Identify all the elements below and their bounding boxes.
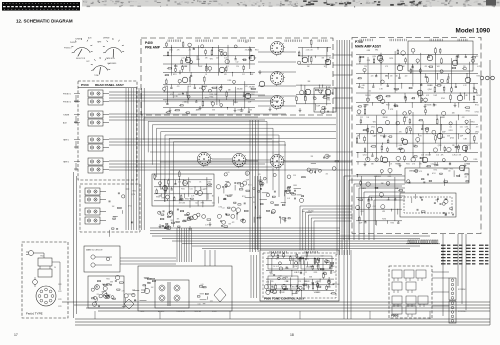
svg-text:4.7K: 4.7K [191, 196, 194, 198]
svg-text:4.7K: 4.7K [276, 266, 279, 268]
svg-text:Q704: Q704 [428, 89, 432, 91]
svg-text:18: 18 [290, 333, 294, 337]
svg-text:33K: 33K [452, 145, 455, 147]
svg-text:470: 470 [245, 42, 248, 44]
svg-text:10K: 10K [395, 75, 398, 77]
svg-text:VR1: VR1 [210, 59, 213, 61]
svg-text:D701: D701 [474, 159, 478, 161]
svg-text:470: 470 [425, 66, 428, 68]
svg-text:R701: R701 [471, 121, 475, 123]
svg-text:R701: R701 [210, 97, 214, 99]
svg-text:Q704: Q704 [372, 56, 376, 58]
svg-text:24: 24 [54, 267, 56, 269]
svg-text:470: 470 [399, 132, 402, 134]
svg-text:1K: 1K [440, 85, 442, 87]
svg-text:H701: H701 [413, 171, 417, 173]
svg-text:2SC458: 2SC458 [476, 95, 482, 97]
svg-text:1K: 1K [429, 85, 431, 87]
svg-text:R701: R701 [181, 189, 185, 191]
svg-text:470: 470 [385, 75, 388, 77]
svg-text:33K: 33K [177, 219, 180, 221]
svg-text:4.7K: 4.7K [205, 224, 208, 226]
svg-text:47K: 47K [205, 58, 208, 60]
svg-text:C12: C12 [304, 272, 307, 274]
svg-text:R701: R701 [156, 196, 160, 198]
svg-text:470: 470 [476, 126, 479, 128]
svg-text:D701: D701 [441, 98, 445, 100]
svg-text:47K: 47K [178, 182, 181, 184]
svg-text:220: 220 [434, 105, 437, 107]
svg-text:P400: P400 [145, 41, 153, 45]
svg-text:H701: H701 [391, 223, 395, 225]
svg-text:220: 220 [271, 281, 274, 283]
svg-text:2SC458: 2SC458 [368, 199, 374, 201]
svg-text:220: 220 [236, 66, 239, 68]
svg-text:0.01: 0.01 [188, 86, 191, 88]
svg-text:47K: 47K [224, 74, 227, 76]
svg-text:PV00: PV00 [81, 83, 89, 87]
svg-text:PHONO 1: PHONO 1 [63, 94, 71, 96]
svg-text:R701: R701 [248, 185, 252, 187]
svg-text:47K: 47K [441, 154, 444, 156]
svg-text:Q704: Q704 [438, 145, 442, 147]
svg-text:2.2K: 2.2K [129, 301, 132, 303]
svg-text:D701: D701 [475, 112, 479, 114]
svg-text:SYSTEM 2: SYSTEM 2 [458, 311, 466, 313]
svg-text:OUT: OUT [86, 61, 90, 63]
svg-text:DEFEAT: DEFEAT [103, 37, 110, 40]
svg-text:VR1: VR1 [384, 136, 387, 138]
svg-text:470: 470 [395, 90, 398, 92]
svg-text:Q704: Q704 [131, 194, 135, 196]
svg-text:VR1: VR1 [361, 88, 364, 90]
svg-text:6.8K: 6.8K [399, 145, 402, 147]
svg-text:0.01: 0.01 [210, 300, 213, 302]
svg-text:220: 220 [285, 277, 288, 279]
svg-text:C12: C12 [242, 74, 245, 76]
svg-text:Q704: Q704 [450, 137, 454, 139]
svg-text:C12: C12 [316, 266, 319, 268]
svg-text:100P: 100P [246, 179, 250, 181]
svg-text:H701: H701 [380, 136, 384, 138]
svg-text:100P: 100P [359, 223, 363, 225]
svg-text:Q704: Q704 [183, 221, 187, 223]
svg-text:VR1: VR1 [241, 109, 244, 111]
svg-text:C12: C12 [175, 66, 178, 68]
svg-text:0.01: 0.01 [294, 272, 297, 274]
svg-text:470: 470 [326, 173, 329, 175]
svg-text:0.01: 0.01 [431, 164, 434, 166]
svg-text:470: 470 [179, 203, 182, 205]
svg-text:2SC458: 2SC458 [425, 154, 431, 156]
svg-text:2SC458: 2SC458 [237, 89, 243, 91]
svg-text:D701: D701 [371, 126, 375, 128]
svg-text:6.8K: 6.8K [374, 176, 377, 178]
svg-text:33K: 33K [228, 223, 231, 225]
svg-text:0.01: 0.01 [378, 56, 381, 58]
svg-text:4.7K: 4.7K [165, 102, 168, 104]
svg-text:4.7K: 4.7K [463, 85, 466, 87]
svg-text:VR1: VR1 [209, 184, 212, 186]
svg-text:VR1: VR1 [171, 220, 174, 222]
svg-text:1K: 1K [324, 66, 326, 68]
svg-text:0.01: 0.01 [361, 211, 364, 213]
svg-text:H701: H701 [133, 191, 137, 193]
svg-text:R701: R701 [388, 176, 392, 178]
svg-text:33K: 33K [447, 136, 450, 138]
svg-text:VR1: VR1 [442, 117, 445, 119]
svg-text:0.01: 0.01 [94, 304, 97, 306]
svg-text:470: 470 [253, 202, 256, 204]
svg-text:220: 220 [371, 75, 374, 77]
svg-text:R701: R701 [173, 74, 177, 76]
svg-text:R701: R701 [389, 58, 393, 60]
svg-text:0.01: 0.01 [460, 126, 463, 128]
svg-text:C12: C12 [455, 154, 458, 156]
svg-text:4.7K: 4.7K [477, 66, 480, 68]
svg-text:C12: C12 [195, 203, 198, 205]
svg-text:D701: D701 [228, 80, 232, 82]
svg-text:D701: D701 [201, 287, 205, 289]
svg-text:D701: D701 [307, 287, 311, 289]
svg-text:10K: 10K [112, 206, 115, 208]
svg-text:H701: H701 [327, 100, 331, 102]
svg-text:6.8K: 6.8K [465, 126, 468, 128]
svg-text:POWER SW: POWER SW [176, 311, 186, 313]
svg-text:R701: R701 [386, 105, 390, 107]
svg-text:6.8K: 6.8K [362, 85, 365, 87]
svg-text:33K: 33K [371, 164, 374, 166]
svg-text:2SC458: 2SC458 [249, 86, 255, 88]
svg-text:100P: 100P [442, 131, 446, 133]
svg-text:6.8K: 6.8K [274, 293, 277, 295]
svg-text:P800 TONE CONTROL ASSY: P800 TONE CONTROL ASSY [264, 297, 305, 301]
svg-text:33K: 33K [322, 58, 325, 60]
svg-text:2SC458: 2SC458 [245, 49, 251, 51]
svg-text:220: 220 [405, 75, 408, 77]
svg-text:470: 470 [465, 176, 468, 178]
svg-text:470: 470 [134, 300, 137, 302]
svg-text:R701: R701 [113, 217, 117, 219]
svg-text:0.01: 0.01 [248, 58, 251, 60]
svg-text:470: 470 [177, 86, 180, 88]
svg-text:47K: 47K [232, 222, 235, 224]
svg-text:220: 220 [97, 294, 100, 296]
svg-text:220: 220 [189, 49, 192, 51]
svg-text:C12: C12 [368, 90, 371, 92]
svg-text:4.7K: 4.7K [298, 281, 301, 283]
svg-text:2.2K: 2.2K [306, 49, 309, 51]
svg-text:SR-05: SR-05 [212, 311, 217, 313]
svg-text:33K: 33K [429, 105, 432, 107]
svg-text:TAPE 1: TAPE 1 [63, 139, 69, 142]
svg-text:33K: 33K [249, 109, 252, 111]
svg-text:R701: R701 [450, 169, 454, 171]
svg-text:D701: D701 [404, 117, 408, 119]
svg-text:100P: 100P [199, 66, 203, 68]
svg-text:C12: C12 [360, 117, 363, 119]
svg-text:10K: 10K [367, 117, 370, 119]
svg-text:100P: 100P [434, 95, 438, 97]
svg-text:47K: 47K [462, 117, 465, 119]
svg-text:D701: D701 [207, 182, 211, 184]
svg-text:TUNER: TUNER [75, 39, 82, 41]
svg-text:2SC458: 2SC458 [279, 292, 285, 294]
svg-text:33K: 33K [307, 66, 310, 68]
svg-text:VR1: VR1 [188, 182, 191, 184]
svg-text:2SC458: 2SC458 [306, 267, 312, 269]
svg-text:VR1: VR1 [437, 66, 440, 68]
svg-text:VR1: VR1 [314, 292, 317, 294]
svg-text:220: 220 [204, 189, 207, 191]
svg-text:C12: C12 [333, 272, 336, 274]
svg-text:H701: H701 [477, 75, 481, 77]
svg-text:H701: H701 [432, 173, 436, 175]
svg-text:H701: H701 [475, 105, 479, 107]
svg-text:4.7K: 4.7K [196, 109, 199, 111]
svg-text:33K: 33K [293, 175, 296, 177]
svg-text:47K: 47K [459, 154, 462, 156]
svg-text:R701: R701 [199, 88, 203, 90]
svg-text:D701: D701 [169, 49, 173, 51]
svg-text:Fsr(n) TYPE: Fsr(n) TYPE [26, 312, 43, 316]
svg-text:VR1: VR1 [373, 121, 376, 123]
svg-text:4.7K: 4.7K [426, 95, 429, 97]
svg-text:MAIN AMP ASSY: MAIN AMP ASSY [355, 45, 382, 49]
svg-text:33K: 33K [212, 109, 215, 111]
svg-text:33K: 33K [383, 117, 386, 119]
svg-text:Model 1090: Model 1090 [456, 28, 491, 35]
svg-text:4.7K: 4.7K [413, 145, 416, 147]
svg-text:0.01: 0.01 [436, 154, 439, 156]
svg-text:H701: H701 [255, 49, 259, 51]
svg-text:PHONO 2: PHONO 2 [63, 102, 71, 104]
svg-text:4.7K: 4.7K [122, 290, 125, 292]
svg-text:0.01: 0.01 [198, 304, 201, 306]
svg-text:0.01: 0.01 [190, 189, 193, 191]
svg-text:PRE AMP: PRE AMP [145, 46, 161, 50]
svg-text:2SC458: 2SC458 [304, 281, 310, 283]
svg-text:10K: 10K [448, 171, 451, 173]
svg-text:0.01: 0.01 [201, 284, 204, 286]
svg-text:REAR PANEL ASSY: REAR PANEL ASSY [95, 83, 125, 87]
svg-text:2.2K: 2.2K [310, 49, 313, 51]
svg-text:220: 220 [364, 66, 367, 68]
svg-text:0.01: 0.01 [287, 198, 290, 200]
svg-text:R701: R701 [292, 287, 296, 289]
svg-text:1K: 1K [212, 196, 214, 198]
svg-text:R701: R701 [234, 102, 238, 104]
svg-text:R701: R701 [382, 219, 386, 221]
svg-text:4.7K: 4.7K [419, 171, 422, 173]
svg-text:47K: 47K [476, 56, 479, 58]
svg-text:TUNER: TUNER [63, 115, 70, 117]
svg-text:470: 470 [390, 75, 393, 77]
svg-text:VR1: VR1 [306, 259, 309, 261]
svg-text:H701: H701 [106, 279, 110, 281]
svg-text:C12: C12 [182, 58, 185, 60]
svg-text:33K: 33K [311, 156, 314, 158]
svg-text:D701: D701 [475, 132, 479, 134]
svg-text:H701: H701 [466, 164, 470, 166]
svg-text:33K: 33K [286, 281, 289, 283]
svg-text:100P: 100P [248, 102, 252, 104]
svg-text:C12: C12 [449, 126, 452, 128]
svg-text:100P: 100P [460, 136, 464, 138]
svg-text:2SC458: 2SC458 [308, 210, 314, 212]
svg-text:47K: 47K [132, 290, 135, 292]
svg-text:C12: C12 [373, 206, 376, 208]
svg-text:4.7K: 4.7K [387, 199, 390, 201]
svg-text:47K: 47K [419, 164, 422, 166]
svg-text:47K: 47K [177, 49, 180, 51]
svg-text:470: 470 [374, 136, 377, 138]
svg-text:LOUDNESS: LOUDNESS [107, 63, 117, 65]
svg-text:TAPE MON: TAPE MON [106, 57, 115, 60]
svg-text:0.01: 0.01 [212, 203, 215, 205]
svg-text:47K: 47K [385, 66, 388, 68]
svg-text:VR1: VR1 [375, 49, 378, 51]
svg-text:100P: 100P [317, 106, 321, 108]
svg-text:4.7K: 4.7K [245, 86, 248, 88]
svg-text:VR1: VR1 [276, 258, 279, 260]
svg-text:R701: R701 [466, 111, 470, 113]
svg-text:T901: T901 [40, 256, 44, 258]
svg-text:220: 220 [216, 58, 219, 60]
svg-text:C12: C12 [222, 208, 225, 210]
svg-text:TAPE 2: TAPE 2 [63, 161, 69, 164]
svg-text:R701: R701 [434, 170, 438, 172]
svg-text:FUSE: FUSE [140, 311, 144, 313]
svg-text:Q704: Q704 [293, 266, 297, 268]
svg-text:D701: D701 [219, 207, 223, 209]
svg-text:2SC458: 2SC458 [365, 95, 371, 97]
svg-text:47K: 47K [412, 164, 415, 166]
svg-text:VR1: VR1 [382, 211, 385, 213]
svg-text:6.8K: 6.8K [465, 95, 468, 97]
svg-text:MAIN SL CIRCUIT: MAIN SL CIRCUIT [86, 249, 103, 252]
svg-text:2SC458: 2SC458 [329, 266, 335, 268]
svg-text:C12: C12 [236, 62, 239, 64]
svg-text:100P: 100P [250, 74, 254, 76]
svg-text:10K: 10K [385, 117, 388, 119]
svg-text:12. SCHEMATIC DIAGRAM: 12. SCHEMATIC DIAGRAM [16, 19, 73, 24]
svg-text:33K: 33K [327, 287, 330, 289]
svg-text:2.2K: 2.2K [317, 292, 320, 294]
svg-text:1K: 1K [199, 182, 201, 184]
svg-text:47K: 47K [258, 174, 261, 176]
svg-text:PHONO: PHONO [70, 42, 77, 44]
svg-text:VR1: VR1 [332, 284, 335, 286]
svg-text:Q704: Q704 [229, 195, 233, 197]
svg-text:2.2K: 2.2K [421, 154, 424, 156]
svg-text:4.7K: 4.7K [419, 136, 422, 138]
svg-text:PHONO 2: PHONO 2 [64, 48, 72, 50]
svg-text:D701: D701 [449, 130, 453, 132]
svg-text:H701: H701 [162, 198, 166, 200]
svg-text:R701: R701 [185, 199, 189, 201]
svg-text:1K: 1K [390, 164, 392, 166]
svg-text:R701: R701 [314, 272, 318, 274]
svg-text:17: 17 [14, 333, 18, 337]
svg-text:6.8K: 6.8K [182, 203, 185, 205]
svg-text:R701: R701 [406, 164, 410, 166]
svg-text:Q704: Q704 [363, 154, 367, 156]
svg-text:10K: 10K [151, 287, 154, 289]
svg-text:Q704: Q704 [243, 60, 247, 62]
svg-text:220: 220 [463, 66, 466, 68]
svg-text:1K: 1K [292, 260, 294, 262]
svg-text:1K: 1K [205, 74, 207, 76]
svg-text:47K: 47K [357, 136, 360, 138]
svg-text:SELECTOR: SELECTOR [76, 58, 86, 60]
svg-text:H701: H701 [201, 203, 205, 205]
